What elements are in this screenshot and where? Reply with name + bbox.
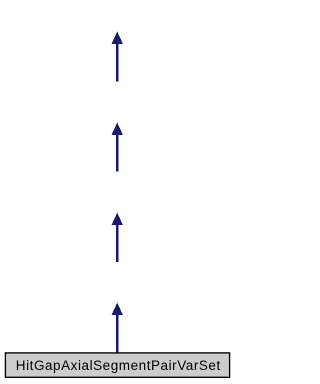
inheritance arrow 4 (into class box)	[112, 303, 124, 353]
inheritance arrow 3	[112, 213, 124, 262]
svg-text:HitGapAxialSegmentPairVarSet: HitGapAxialSegmentPairVarSet	[16, 358, 221, 373]
inheritance arrow 2	[112, 123, 124, 172]
inheritance diagram for HitGapAxialSegmentPairVarSet	[0, 0, 235, 384]
class box HitGapAxialSegmentPairVarSet	[5, 353, 229, 377]
inheritance arrow 1 (topmost)	[112, 32, 124, 82]
